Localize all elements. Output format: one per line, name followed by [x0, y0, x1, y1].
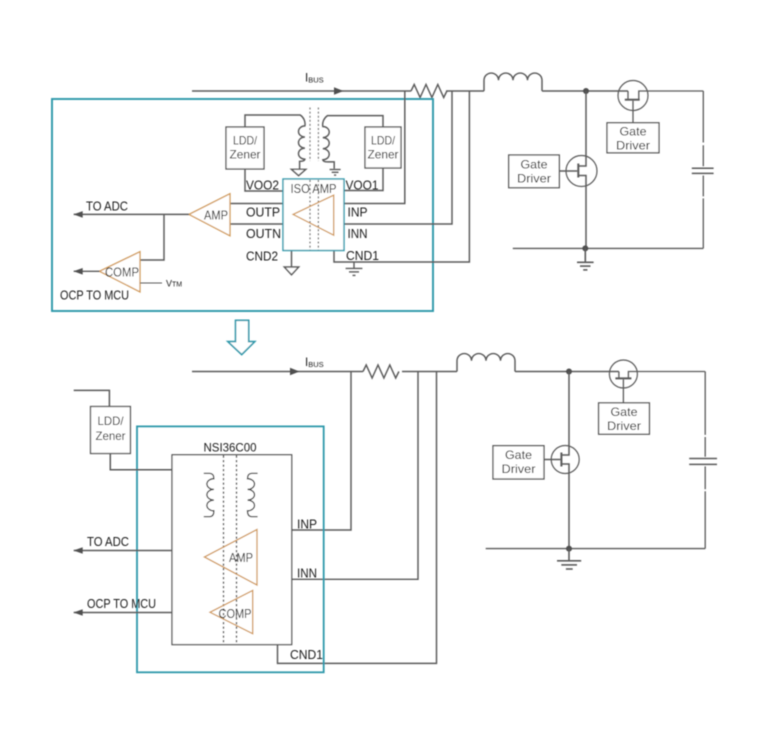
- block Gate Driver (top low-side): [509, 155, 560, 188]
- capacitor dashed isolation barrier inside ISO AMP: [310, 180, 318, 250]
- wire VTM reference input: [140, 282, 162, 284]
- resistor shunt (top): [411, 85, 447, 98]
- svg-text:Zener: Zener: [230, 148, 261, 162]
- svg-text:INP: INP: [297, 517, 317, 531]
- inductor L (bottom): [457, 354, 515, 372]
- block Gate Driver (bottom low-side): [493, 446, 544, 479]
- svg-text:Driver: Driver: [502, 462, 536, 476]
- svg-text:Gate: Gate: [521, 157, 548, 171]
- svg-text:OCP TO MCU: OCP TO MCU: [60, 288, 129, 302]
- inductor L (top): [484, 73, 542, 91]
- svg-text:COMP: COMP: [105, 265, 139, 279]
- node junction dot bottom rail (top): [582, 245, 588, 251]
- wire CND1 (bottom): [278, 372, 437, 664]
- op-amp AMP (top): [189, 194, 230, 236]
- wire gate of Q4: [544, 459, 560, 461]
- block Gate Driver (bottom high-side): [599, 403, 650, 434]
- svg-text:CND2: CND2: [246, 249, 278, 263]
- wire VOO1 from right LDD box to ISO AMP: [344, 168, 383, 191]
- wire INN (ISO AMP to bus, after shunt): [344, 91, 452, 224]
- node arrowhead OCP (top): [74, 268, 83, 275]
- wire bottom rail (top): [513, 247, 704, 249]
- svg-text:Driver: Driver: [616, 138, 650, 152]
- capacitor C2 (bottom right): [689, 372, 717, 549]
- block Gate Driver (top high-side): [607, 123, 659, 153]
- svg-text:LDD/: LDD/: [371, 134, 396, 148]
- wire INN sense (bottom): [292, 372, 418, 580]
- block LDD/Zener (bottom): [74, 390, 110, 406]
- ground earth (bottom power stage): [557, 549, 581, 569]
- svg-text:ISO AMP: ISO AMP: [291, 182, 337, 196]
- ground earth under right coil: [330, 170, 341, 176]
- wire CND1 (ISO AMP to bus right of shunt): [334, 91, 469, 262]
- node junction dot switch node (bottom): [566, 369, 572, 375]
- svg-text:LDD/: LDD/: [98, 414, 125, 428]
- wire OCP output of COMP: [74, 270, 100, 272]
- capacitor dashed isolation barrier (top transformer): [310, 108, 318, 162]
- ground open-triangle CND2: [284, 267, 298, 275]
- wire Iaus bus line (top): [192, 90, 411, 92]
- transistor Q2 low-side (top): [566, 156, 597, 249]
- wire CND2 stub below ISO AMP: [291, 251, 293, 268]
- comparator COMP (top): [100, 252, 141, 292]
- svg-text:Zener: Zener: [96, 429, 126, 443]
- wire branch from TO ADC to COMP input: [140, 214, 164, 260]
- node arrowhead TO ADC (bottom): [74, 547, 83, 554]
- svg-text:Driver: Driver: [517, 171, 551, 185]
- wire INP sense (bottom): [292, 372, 351, 531]
- transistor Q3 high-side (bottom): [609, 360, 705, 403]
- svg-text:Zener: Zener: [368, 148, 399, 162]
- wire vertical switch leg (bottom): [561, 372, 569, 456]
- box teal outer (bottom diagram): [137, 426, 324, 672]
- resistor shunt (bottom): [363, 365, 399, 378]
- transformer coil (bottom chip left): [204, 473, 214, 516]
- wire vertical switch leg (top): [578, 91, 586, 166]
- svg-text:OUTN: OUTN: [246, 227, 281, 241]
- wire TO ADC output of AMP: [74, 213, 189, 215]
- wire LDD output into chip: [110, 454, 172, 470]
- transformer coil (bottom chip right): [248, 473, 258, 516]
- wire rail after resistor (top): [446, 90, 484, 92]
- chip NSI36C00 box: [172, 455, 292, 645]
- svg-text:TO ADC: TO ADC: [86, 199, 128, 213]
- wire rail to switch node (bottom): [515, 371, 619, 373]
- comparator COMP (bottom chip): [210, 590, 253, 633]
- ground earth (top power stage): [577, 248, 594, 270]
- node arrowhead Iaus (top): [334, 87, 344, 94]
- node big teal arrow down: [228, 320, 255, 354]
- svg-text:OCP TO MCU: OCP TO MCU: [87, 597, 156, 611]
- svg-text:CND1: CND1: [346, 249, 379, 263]
- svg-text:INP: INP: [348, 206, 368, 220]
- wire VOO2 from LDD box to ISO AMP: [245, 169, 283, 191]
- svg-text:OUTP: OUTP: [246, 206, 280, 220]
- node junction dot bottom rail (bottom): [566, 546, 572, 552]
- block ISO AMP box: [283, 179, 344, 251]
- box teal outer (top diagram): [52, 99, 433, 311]
- transistor Q1 high-side (top): [618, 81, 703, 123]
- svg-text:NSI36C00: NSI36C00: [204, 441, 257, 455]
- wire rail to switch node (top): [542, 90, 628, 92]
- block LDD/Zener (top left): [226, 127, 264, 169]
- svg-text:INN: INN: [348, 227, 368, 241]
- svg-text:CND1: CND1: [290, 648, 323, 662]
- wire OUTN (AMP to ISO AMP): [230, 223, 283, 225]
- transistor Q4 low-side (bottom): [551, 446, 579, 549]
- wire INP (ISO AMP to bus, before shunt): [344, 91, 405, 204]
- svg-text:AMP: AMP: [229, 551, 253, 565]
- wire gate of Q2: [559, 170, 577, 172]
- ground open-triangle under left coil: [291, 169, 305, 175]
- capacitor C1 (top right): [692, 91, 714, 248]
- wire Iaus bus line (bottom): [192, 371, 363, 373]
- wire TO ADC (bottom): [74, 550, 172, 552]
- svg-text:Gate: Gate: [620, 124, 647, 138]
- capacitor dashed isolation barrier (bottom chip): [224, 456, 237, 645]
- svg-text:VOO2: VOO2: [246, 178, 279, 192]
- wire rail after resistor (bottom): [402, 371, 457, 373]
- node junction dot switch node (top): [583, 88, 589, 94]
- svg-text:Driver: Driver: [607, 419, 641, 433]
- svg-text:AMP: AMP: [204, 208, 228, 222]
- op-amp triangle inside ISO AMP: [293, 195, 334, 235]
- node arrowhead Iaus (bottom): [290, 368, 300, 375]
- node arrowhead TO ADC (top): [74, 211, 83, 218]
- ground earth on CND1 wire: [346, 262, 363, 275]
- transformer primary coil (top left coil): [245, 115, 305, 169]
- svg-text:Gate: Gate: [505, 448, 532, 462]
- block LDD/Zener (top right): [365, 127, 401, 168]
- wire OUTP (AMP to ISO AMP): [230, 203, 283, 205]
- svg-text:INN: INN: [297, 567, 317, 581]
- svg-text:VOO1: VOO1: [346, 178, 379, 192]
- transformer secondary coil (top right coil): [323, 116, 383, 169]
- wire bottom rail (bottom): [486, 548, 706, 550]
- svg-text:LDD/: LDD/: [233, 134, 258, 148]
- svg-text:TO ADC: TO ADC: [87, 535, 129, 549]
- node arrowhead OCP (bottom): [74, 609, 83, 616]
- wire OCP TO MCU (bottom): [74, 612, 172, 614]
- svg-text:COMP: COMP: [219, 607, 252, 621]
- svg-text:Gate: Gate: [611, 405, 638, 419]
- op-amp AMP (bottom chip): [204, 530, 257, 586]
